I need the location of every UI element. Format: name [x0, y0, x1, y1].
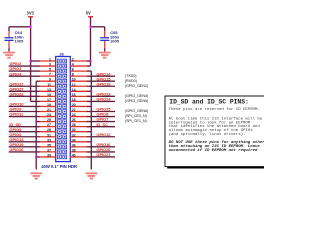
wire pin40 GPIO21	[87, 156, 116, 158]
wire pin13 GPIO27	[9, 90, 40, 92]
ground under C65	[99, 52, 111, 54]
svg-text:5V: 5V	[86, 11, 91, 16]
wire pin17 3V3	[31, 100, 40, 102]
svg-text:J8: J8	[59, 51, 64, 56]
connector J8 box	[56, 57, 71, 162]
wire pin11 GPIO17	[9, 85, 40, 87]
wire pin4 5V	[87, 65, 91, 67]
wire pin1 3V3	[31, 60, 40, 62]
svg-text:16: 16	[72, 93, 76, 97]
wire C65 branch	[91, 26, 105, 28]
svg-text:4: 4	[72, 63, 74, 67]
svg-text:35: 35	[47, 143, 51, 147]
wire pin2 5V	[87, 60, 91, 62]
wire pin21 GPIO9	[9, 111, 40, 113]
svg-text:ID_SD and ID_SC PINS:: ID_SD and ID_SC PINS:	[169, 98, 249, 105]
junction 3V3/pin1	[29, 60, 31, 62]
svg-text:38: 38	[72, 148, 76, 152]
svg-text:ID_SC: ID_SC	[96, 122, 108, 127]
svg-text:GPIO26: GPIO26	[9, 147, 24, 152]
ground under C64	[3, 52, 15, 54]
wire 5V rail	[90, 17, 92, 66]
svg-text:6: 6	[72, 68, 74, 72]
wire pin39 GND	[36, 156, 40, 158]
svg-text:(TXD0): (TXD0)	[125, 74, 137, 78]
svg-text:GPIO21: GPIO21	[96, 152, 111, 157]
svg-text:22: 22	[72, 108, 76, 112]
wire pin27 ID_SD	[9, 126, 40, 128]
svg-text:13: 13	[47, 88, 51, 92]
wire pin32 GPIO12	[87, 136, 116, 138]
wire pin9 GND	[36, 80, 40, 82]
svg-text:(and optionally, linux drivers: (and optionally, linux drivers).	[169, 132, 246, 137]
svg-text:8: 8	[72, 73, 74, 77]
junction pin20 GND	[90, 105, 92, 107]
svg-text:1005: 1005	[110, 38, 120, 43]
svg-text:15: 15	[47, 93, 51, 97]
svg-text:10: 10	[72, 78, 76, 82]
wire pin5 GPIO3	[9, 70, 40, 72]
svg-text:(SPI_CE1_N): (SPI_CE1_N)	[125, 119, 148, 123]
svg-text:GPIO18: GPIO18	[96, 81, 111, 86]
wire pin35 GPIO19	[9, 146, 40, 148]
wire right GND bus	[90, 71, 92, 169]
svg-text:18: 18	[72, 98, 76, 102]
svg-text:GPIO11: GPIO11	[9, 112, 24, 117]
svg-text:GPIO24: GPIO24	[96, 97, 111, 102]
junction pin34 GND	[90, 141, 92, 143]
svg-text:23: 23	[47, 113, 51, 117]
svg-text:5: 5	[49, 68, 51, 72]
svg-text:33: 33	[47, 138, 51, 142]
wire pin25 GND	[36, 121, 40, 123]
svg-text:30: 30	[72, 128, 76, 132]
wire pin22 GPIO25	[87, 111, 116, 113]
junction 3V3/C64	[29, 26, 31, 28]
wire pin26 GPIO7	[87, 121, 116, 123]
wire pin36 GPIO16	[87, 146, 116, 148]
wire pin33 GPIO13	[9, 141, 40, 143]
wire pin12 GPIO18	[87, 85, 116, 87]
wire pin15 GPIO22	[9, 95, 40, 97]
wire pin16 GPIO23	[87, 95, 116, 97]
wire 3V3 rail	[30, 17, 32, 101]
junction pin25 GND	[35, 120, 37, 122]
junction pin39 GND	[35, 156, 37, 158]
junction 5V/pin2	[89, 60, 91, 62]
wire pin29 GPIO5	[9, 131, 40, 133]
svg-text:25: 25	[47, 118, 51, 122]
ground right bus	[85, 172, 97, 174]
connector pin stubs	[40, 60, 56, 62]
svg-text:29: 29	[47, 128, 51, 132]
svg-text:1005: 1005	[14, 38, 24, 43]
wire pin19 GPIO10	[9, 105, 40, 107]
capacitor C64	[8, 27, 10, 31]
svg-text:28: 28	[72, 123, 76, 127]
svg-text:9: 9	[49, 78, 51, 82]
wire pin20 GND	[87, 105, 92, 107]
svg-text:26: 26	[72, 118, 76, 122]
svg-text:19: 19	[47, 103, 51, 107]
svg-text:24: 24	[72, 113, 76, 117]
svg-text:36: 36	[72, 143, 76, 147]
wire pin28 ID_SC	[87, 126, 116, 128]
svg-text:unconnected if ID EEPROM not r: unconnected if ID EEPROM not required	[169, 148, 258, 153]
svg-text:GPIO12: GPIO12	[96, 132, 111, 137]
wire pin24 GPIO8	[87, 116, 116, 118]
svg-text:34: 34	[72, 138, 76, 142]
capacitor C65	[104, 27, 106, 31]
wire pin30 GND	[87, 131, 92, 133]
svg-text:These pins are reserved for ID: These pins are reserved for ID EEPROM.	[169, 107, 260, 112]
wire pin31 GPIO6	[9, 136, 40, 138]
svg-text:(GPIO_GEN4): (GPIO_GEN4)	[125, 94, 149, 98]
ground left bus	[30, 172, 42, 174]
wire C64 branch	[9, 26, 31, 28]
svg-text:7: 7	[49, 73, 51, 77]
svg-text:(GPIO_GEN1): (GPIO_GEN1)	[125, 84, 149, 88]
svg-text:(GPIO_GEN6): (GPIO_GEN6)	[125, 109, 149, 113]
svg-text:11: 11	[47, 83, 51, 87]
wire pin37 GPIO26	[9, 151, 40, 153]
wire pin7 GPIO4	[9, 75, 40, 77]
svg-text:27: 27	[47, 123, 51, 127]
wire pin3 GPIO2	[9, 65, 40, 67]
svg-text:14: 14	[72, 88, 76, 92]
wire pin6 GND	[87, 70, 92, 72]
svg-text:(SPI_CE0_N): (SPI_CE0_N)	[125, 114, 148, 118]
svg-text:1: 1	[49, 58, 51, 62]
svg-text:(GPIO_GEN5): (GPIO_GEN5)	[125, 99, 149, 103]
svg-text:12: 12	[72, 83, 76, 87]
svg-text:3: 3	[49, 63, 51, 67]
svg-text:GPIO4: GPIO4	[9, 71, 22, 76]
junction 5V/C65	[89, 26, 91, 28]
svg-text:17: 17	[47, 98, 51, 102]
wire pin18 GPIO24	[87, 100, 116, 102]
wire pin8 GPIO14	[87, 75, 116, 77]
svg-text:2: 2	[72, 58, 74, 62]
wire pin34 GND	[87, 141, 92, 143]
svg-text:37: 37	[47, 148, 51, 152]
svg-text:40: 40	[72, 153, 76, 157]
note box ID EEPROM	[165, 96, 275, 167]
svg-text:39: 39	[47, 153, 51, 157]
wire pin38 GPIO20	[87, 151, 116, 153]
wire pin14 GND	[87, 90, 92, 92]
wire pin10 GPIO15	[87, 80, 116, 82]
svg-text:21: 21	[47, 108, 51, 112]
svg-text:(RXD0): (RXD0)	[125, 79, 138, 83]
connector pin pads	[58, 59, 62, 63]
junction pin30 GND	[90, 131, 92, 133]
svg-text:20: 20	[72, 103, 76, 107]
svg-text:GPIO22: GPIO22	[9, 91, 24, 96]
svg-text:32: 32	[72, 133, 76, 137]
svg-text:3V3: 3V3	[27, 11, 35, 16]
svg-text:40W 0.1" PIN HDR: 40W 0.1" PIN HDR	[41, 164, 77, 169]
wire pin23 GPIO11	[9, 116, 40, 118]
svg-text:31: 31	[47, 133, 51, 137]
junction pin14 GND	[90, 90, 92, 92]
wire left GND bus	[35, 81, 37, 169]
